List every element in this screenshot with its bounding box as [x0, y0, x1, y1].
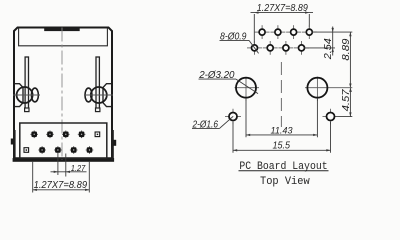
right latch slot: [96, 57, 99, 111]
right boss horizontal centerline: [84, 94, 113, 96]
left shell nub: [11, 139, 14, 145]
shell lower-right thick wall: [111, 130, 114, 160]
top tab bar: [44, 28, 79, 32]
label 8-Ø0.9 with leader: [220, 31, 259, 53]
pin 6 (top row): [62, 131, 70, 139]
right shell nub: [113, 140, 116, 146]
hole H7 (bottom row): [294, 41, 309, 55]
left latch slot: [25, 57, 28, 111]
small hole left 2-Ø1.6: [225, 109, 241, 125]
shell top lid inner line: [19, 28, 108, 46]
right boss side ellipse: [85, 88, 92, 102]
left boss horizontal centerline: [13, 94, 40, 96]
centerline between mounting holes: [280, 62, 282, 127]
extension line right circle horizontal: [305, 87, 352, 89]
pin 7 (bottom row): [70, 146, 78, 154]
dimension 11.43 (mounting hole spacing): [246, 98, 317, 137]
connector shell outline J1 front view: [14, 28, 112, 159]
svg-text:8.89: 8.89: [341, 38, 352, 60]
mounting hole left 2-Ø3.20: [235, 77, 260, 101]
right bracket clip: [103, 84, 111, 107]
dimension 2.54 (row spacing): [304, 27, 352, 61]
dimension 15.5 (small hole spacing): [233, 122, 331, 153]
pin housing block: [20, 123, 107, 158]
pin 5 (bottom row): [54, 146, 62, 154]
vertical centerline of connector: [61, 28, 63, 161]
label 2-Ø3.20 with leader: [198, 70, 258, 94]
hole H1 (bottom row, Ø0.9): [247, 41, 262, 55]
label 2-Ø1.6 with leader: [192, 116, 234, 130]
svg-text:1.27X7=8.89: 1.27X7=8.89: [257, 3, 308, 14]
right latch slot foot: [96, 108, 100, 112]
svg-text:11.43: 11.43: [271, 125, 294, 136]
small hole right 2-Ø1.6: [323, 109, 339, 125]
pin 1 (open square, bottom row): [24, 148, 29, 153]
pin 10 (open square, top row): [95, 132, 100, 137]
svg-text:2.54: 2.54: [323, 38, 334, 61]
pin 8 (top row): [78, 131, 86, 139]
svg-text:1.27X7=8.89: 1.27X7=8.89: [34, 180, 88, 191]
svg-text:4.57: 4.57: [341, 89, 352, 111]
left bracket clip: [15, 84, 23, 107]
pin 3 (bottom row): [38, 146, 46, 154]
shell lower-left thick wall: [13, 130, 15, 160]
subtitle Top View: [260, 176, 310, 188]
hole H4 (top row): [270, 25, 285, 39]
dimension 1.27 (pin pitch, front view): [51, 154, 87, 177]
hole H8 (top row): [302, 25, 317, 39]
hole H6 (top row): [286, 25, 301, 39]
svg-text:1.27: 1.27: [71, 163, 86, 173]
pin 9 (bottom row): [86, 146, 94, 154]
dimension 4.57 (vertical): [341, 88, 352, 117]
left latch slot foot: [25, 108, 29, 112]
left boss circle: [17, 87, 33, 103]
pin 4 (top row): [46, 131, 54, 139]
shell bottom base band: [13, 158, 115, 162]
extension line right small circle horizontal: [335, 116, 352, 118]
svg-text:Top View: Top View: [260, 176, 310, 188]
hole H3 (bottom row): [263, 41, 278, 55]
dimension 1.27X7=8.89 (front view): [33, 161, 90, 193]
hole H2 (top row): [255, 25, 270, 39]
right boss circle: [91, 87, 107, 103]
mounting hole right 2-Ø3.20: [307, 77, 327, 101]
title PC Board Layout: [239, 161, 329, 173]
hole H5 (bottom row): [278, 41, 293, 55]
dimension 8.89 (vertical): [341, 32, 352, 88]
dimension 1.27X7=8.89 (top view): [251, 3, 314, 44]
pin 2 (top row): [30, 131, 38, 139]
left boss side ellipse: [31, 88, 38, 102]
svg-text:15.5: 15.5: [273, 141, 291, 152]
svg-text:2-Ø1.6: 2-Ø1.6: [192, 120, 219, 131]
